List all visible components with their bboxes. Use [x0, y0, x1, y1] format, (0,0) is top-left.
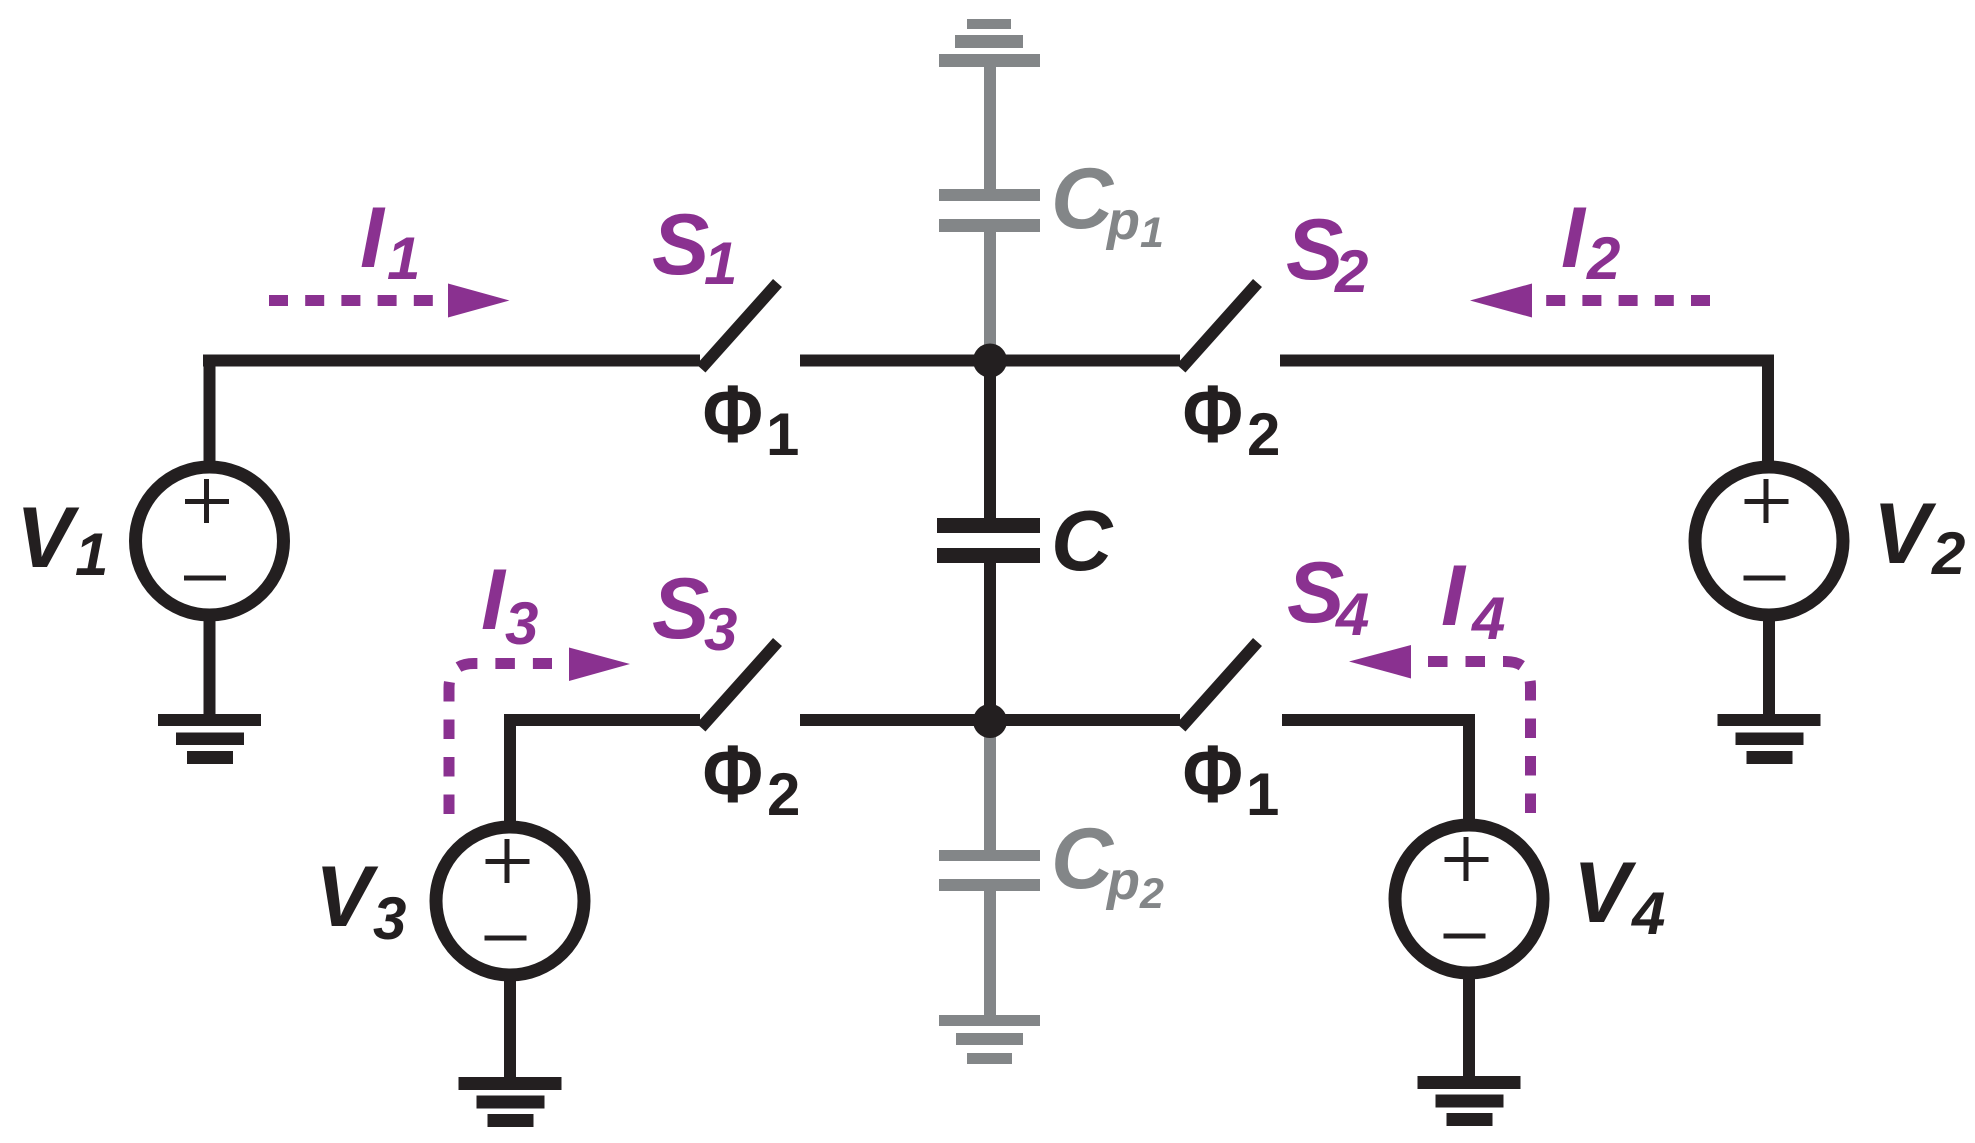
- svg-text:1: 1: [766, 401, 799, 468]
- svg-text:S: S: [652, 197, 709, 293]
- svg-text:C: C: [1051, 494, 1114, 589]
- svg-text:1: 1: [704, 230, 737, 297]
- svg-text:4: 4: [1335, 581, 1369, 648]
- svg-text:1: 1: [1140, 209, 1164, 257]
- svg-text:V: V: [16, 490, 80, 586]
- svg-text:3: 3: [704, 596, 737, 663]
- svg-text:3: 3: [505, 590, 538, 657]
- svg-text:2: 2: [767, 761, 800, 828]
- svg-text:2: 2: [1931, 520, 1965, 587]
- svg-text:C: C: [1051, 811, 1115, 907]
- svg-text:4: 4: [1631, 880, 1665, 947]
- svg-text:I: I: [360, 190, 386, 286]
- svg-text:V: V: [1573, 845, 1637, 941]
- svg-text:p: p: [1105, 851, 1140, 911]
- svg-text:2: 2: [1586, 225, 1620, 292]
- svg-text:4: 4: [1471, 585, 1505, 652]
- svg-text:p: p: [1105, 191, 1140, 251]
- svg-text:V: V: [315, 849, 379, 945]
- svg-text:V: V: [1873, 486, 1937, 582]
- svg-text:I: I: [1561, 190, 1587, 286]
- svg-text:2: 2: [1334, 238, 1368, 305]
- svg-text:2: 2: [1247, 401, 1280, 468]
- svg-text:C: C: [1051, 151, 1115, 247]
- svg-text:S: S: [652, 561, 709, 657]
- svg-text:1: 1: [75, 521, 108, 588]
- svg-text:Φ: Φ: [1183, 367, 1244, 460]
- svg-text:2: 2: [1139, 870, 1164, 918]
- svg-text:Φ: Φ: [703, 727, 764, 820]
- svg-text:Φ: Φ: [1183, 727, 1244, 820]
- svg-text:I: I: [481, 552, 507, 648]
- svg-text:I: I: [1441, 548, 1467, 644]
- svg-text:Φ: Φ: [703, 367, 764, 460]
- svg-text:1: 1: [1246, 761, 1279, 828]
- svg-text:1: 1: [387, 225, 420, 292]
- svg-text:3: 3: [373, 885, 406, 952]
